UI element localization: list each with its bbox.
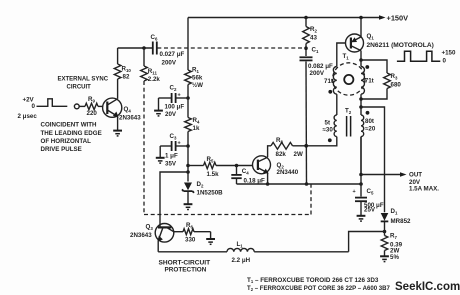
svg-text:PROTECTION: PROTECTION — [165, 267, 207, 274]
svg-text:R7: R7 — [390, 233, 397, 240]
svg-text:R1: R1 — [192, 67, 199, 74]
svg-text:2N3643: 2N3643 — [119, 115, 141, 122]
svg-text:220: 220 — [87, 110, 98, 117]
svg-text:2N3440: 2N3440 — [277, 169, 299, 176]
svg-text:+: + — [178, 141, 181, 147]
svg-text:5t: 5t — [325, 120, 331, 127]
svg-text:2.2k: 2.2k — [148, 76, 161, 83]
svg-text:43: 43 — [310, 35, 317, 42]
svg-text:2N3643: 2N3643 — [130, 232, 152, 239]
svg-text:R10: R10 — [122, 66, 132, 73]
svg-text:0.18 μF: 0.18 μF — [244, 177, 266, 184]
svg-text:C1: C1 — [312, 47, 319, 54]
svg-text:OUT: OUT — [409, 172, 422, 179]
svg-text:330: 330 — [185, 237, 196, 244]
svg-text:EXTERNAL SYNC: EXTERNAL SYNC — [58, 77, 109, 83]
svg-text:+150: +150 — [442, 50, 456, 57]
svg-text:R9: R9 — [88, 96, 95, 103]
svg-text:R4: R4 — [193, 117, 200, 124]
svg-text:Q3: Q3 — [146, 224, 154, 231]
svg-text:20V: 20V — [165, 111, 177, 118]
svg-text:0: 0 — [32, 103, 36, 110]
svg-text:C2: C2 — [170, 85, 177, 92]
svg-text:+150V: +150V — [387, 14, 409, 23]
svg-text:L1: L1 — [237, 241, 244, 248]
svg-text:+: + — [353, 189, 356, 195]
svg-text:0.027 μF: 0.027 μF — [160, 51, 185, 58]
svg-text:35V: 35V — [165, 161, 177, 168]
svg-text:100 μF: 100 μF — [165, 104, 185, 111]
svg-text:+: + — [178, 93, 181, 99]
svg-text:D2: D2 — [197, 181, 204, 188]
svg-text:2W: 2W — [294, 151, 303, 158]
svg-text:≈20: ≈20 — [365, 126, 376, 133]
svg-text:71t: 71t — [365, 78, 374, 85]
svg-text:C5: C5 — [367, 188, 374, 195]
svg-text:R11: R11 — [148, 68, 158, 75]
svg-text:T1: T1 — [343, 53, 350, 60]
svg-text:1N5250B: 1N5250B — [197, 190, 224, 197]
svg-text:5%: 5% — [390, 254, 399, 261]
svg-text:2.2 μH: 2.2 μH — [232, 257, 251, 264]
svg-text:1k: 1k — [193, 125, 200, 132]
svg-text:82: 82 — [123, 74, 130, 81]
svg-text:T1 – FERROXCUBE TOROID 266 CT: T1 – FERROXCUBE TOROID 266 CT 126 3D3 — [247, 277, 379, 284]
svg-text:SHORT-CIRCUIT: SHORT-CIRCUIT — [159, 260, 211, 267]
svg-text:C3: C3 — [170, 133, 177, 140]
svg-text:200V: 200V — [162, 60, 177, 67]
svg-text:1 μF: 1 μF — [165, 153, 178, 160]
svg-text:½W: ½W — [192, 82, 203, 89]
svg-text:T2: T2 — [345, 108, 352, 115]
svg-text:≈30: ≈30 — [323, 127, 334, 134]
svg-text:D1: D1 — [391, 208, 398, 215]
svg-text:R2: R2 — [310, 26, 317, 33]
svg-text:SeekIC.com: SeekIC.com — [395, 281, 460, 293]
svg-text:T2 – FERROXCUBE POT CORE 36 22: T2 – FERROXCUBE POT CORE 36 22P – A600 3… — [247, 286, 390, 292]
svg-text:COINCIDENT WITH: COINCIDENT WITH — [41, 122, 98, 129]
svg-text:OF HORIZONTAL: OF HORIZONTAL — [41, 138, 92, 145]
svg-text:Q1: Q1 — [367, 33, 375, 40]
svg-text:R8: R8 — [276, 137, 283, 144]
svg-text:C4: C4 — [242, 168, 249, 175]
svg-text:R3: R3 — [391, 73, 398, 80]
svg-text:Q4: Q4 — [124, 106, 132, 113]
svg-text:680: 680 — [391, 82, 402, 89]
svg-text:R6: R6 — [186, 222, 193, 229]
svg-text:2 μsec: 2 μsec — [18, 113, 38, 120]
svg-text:71t: 71t — [324, 78, 333, 85]
svg-text:CIRCUIT: CIRCUIT — [67, 85, 92, 91]
svg-text:MR852: MR852 — [391, 218, 412, 225]
svg-text:25V: 25V — [364, 207, 376, 214]
svg-text:C6: C6 — [151, 34, 158, 41]
svg-text:82k: 82k — [276, 151, 287, 158]
svg-text:56k: 56k — [192, 75, 203, 82]
svg-text:0: 0 — [443, 58, 447, 65]
svg-text:THE LEADING EDGE: THE LEADING EDGE — [41, 130, 102, 137]
svg-text:2N6211 (MOTOROLA): 2N6211 (MOTOROLA) — [367, 42, 434, 49]
svg-text:1.5A MAX.: 1.5A MAX. — [409, 186, 439, 193]
svg-text:DRIVE PULSE: DRIVE PULSE — [41, 146, 82, 153]
svg-text:R5: R5 — [207, 156, 214, 163]
svg-text:80t: 80t — [365, 118, 374, 125]
svg-text:200V: 200V — [310, 70, 325, 77]
svg-text:0.082 μF: 0.082 μF — [308, 63, 333, 70]
svg-text:1.5k: 1.5k — [207, 171, 220, 178]
